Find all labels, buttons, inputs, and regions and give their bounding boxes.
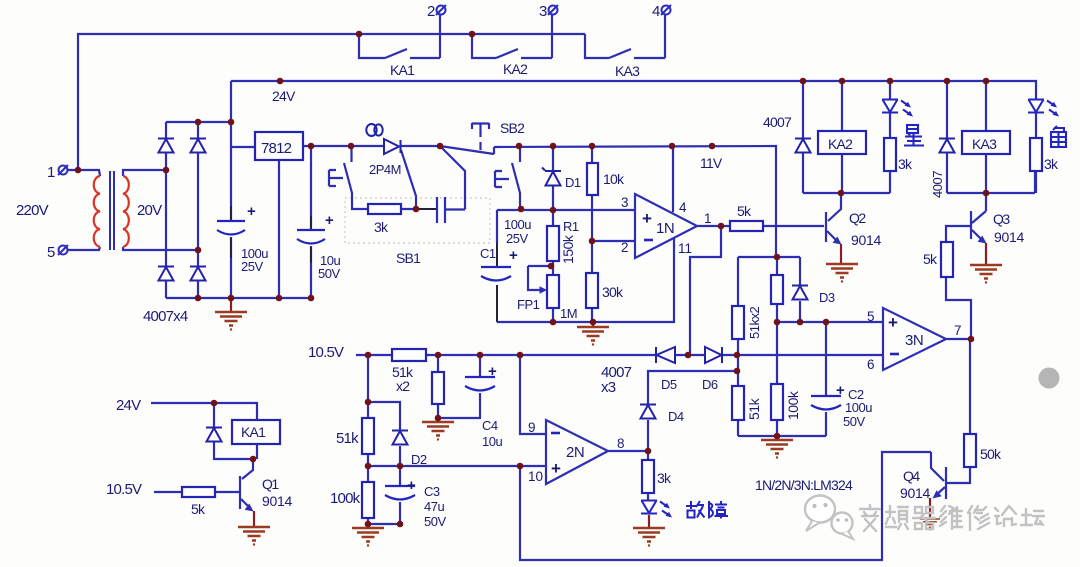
svg-text:3k: 3k: [374, 219, 389, 235]
svg-text:51k: 51k: [746, 397, 762, 420]
svg-text:+: +: [888, 313, 898, 332]
svg-text:3: 3: [621, 195, 629, 210]
svg-text:Q2: Q2: [849, 210, 866, 226]
svg-text:24V: 24V: [272, 88, 296, 104]
svg-text:4007x4: 4007x4: [143, 308, 188, 325]
svg-text:4007: 4007: [763, 114, 792, 130]
svg-text:1: 1: [704, 211, 712, 226]
svg-text:100k: 100k: [785, 390, 801, 420]
svg-text:9014: 9014: [900, 485, 930, 501]
svg-text:5k: 5k: [191, 501, 206, 517]
svg-text:24V: 24V: [116, 397, 141, 414]
svg-text:9: 9: [528, 420, 536, 435]
svg-text:C3: C3: [424, 484, 440, 499]
svg-text:5k: 5k: [923, 251, 938, 267]
svg-text:50k: 50k: [980, 446, 1002, 462]
svg-text:SB1: SB1: [396, 250, 421, 266]
svg-text:4: 4: [679, 200, 687, 215]
svg-text:3: 3: [539, 3, 547, 20]
svg-text:25V: 25V: [241, 259, 263, 274]
svg-text:50V: 50V: [424, 514, 446, 529]
svg-text:9014: 9014: [851, 232, 881, 248]
svg-text:9014: 9014: [262, 493, 292, 509]
svg-text:25V: 25V: [506, 231, 528, 246]
svg-text:10k: 10k: [603, 171, 625, 187]
svg-text:+: +: [509, 247, 518, 264]
svg-text:3N: 3N: [905, 332, 923, 349]
svg-text:220V: 220V: [16, 202, 49, 219]
svg-text:5k: 5k: [737, 203, 752, 219]
svg-text:4: 4: [652, 3, 660, 20]
svg-text:KA1: KA1: [390, 62, 415, 78]
svg-text:x2: x2: [396, 378, 410, 394]
svg-text:D4: D4: [668, 409, 684, 424]
svg-text:3k: 3k: [898, 156, 913, 172]
svg-text:KA1: KA1: [241, 424, 266, 440]
svg-text:+: +: [642, 209, 652, 228]
svg-text:D6: D6: [702, 377, 718, 392]
svg-text:3k: 3k: [1044, 156, 1059, 172]
svg-text:FP1: FP1: [517, 297, 540, 312]
svg-text:2N: 2N: [566, 444, 584, 461]
svg-text:50V: 50V: [843, 414, 865, 429]
svg-text:D1: D1: [565, 175, 581, 190]
svg-text:100u: 100u: [504, 217, 531, 232]
svg-text:Q3: Q3: [993, 211, 1010, 227]
svg-text:20V: 20V: [137, 202, 162, 219]
svg-text:R1: R1: [563, 219, 579, 234]
svg-text:+: +: [836, 382, 845, 399]
svg-text:Q4: Q4: [903, 468, 920, 484]
svg-text:5: 5: [867, 309, 875, 324]
svg-text:1N/2N/3N:LM324: 1N/2N/3N:LM324: [755, 477, 853, 493]
svg-text:51kx2: 51kx2: [747, 307, 762, 339]
svg-text:D3: D3: [819, 290, 835, 305]
svg-text:D5: D5: [661, 377, 677, 392]
svg-text:7: 7: [954, 323, 962, 338]
svg-text:2: 2: [427, 3, 435, 20]
svg-text:KA3: KA3: [972, 136, 997, 152]
svg-text:9014: 9014: [994, 229, 1024, 245]
svg-text:30k: 30k: [602, 284, 624, 300]
svg-text:1: 1: [47, 164, 55, 181]
svg-text:10u: 10u: [482, 434, 502, 449]
svg-text:C1: C1: [480, 246, 496, 261]
svg-text:5: 5: [47, 244, 55, 261]
svg-text:2: 2: [621, 240, 629, 255]
svg-text:SB2: SB2: [500, 120, 525, 136]
svg-text:3k: 3k: [657, 470, 672, 486]
svg-text:1N: 1N: [656, 220, 674, 237]
svg-text:+: +: [247, 203, 256, 220]
svg-text:150k: 150k: [560, 234, 576, 264]
svg-text:D2: D2: [411, 452, 427, 467]
svg-text:4007: 4007: [930, 171, 945, 198]
svg-text:7812: 7812: [261, 140, 292, 157]
svg-text:KA2: KA2: [828, 136, 853, 152]
svg-text:C4: C4: [482, 418, 498, 433]
svg-text:1M: 1M: [560, 306, 577, 321]
svg-text:KA2: KA2: [503, 61, 528, 77]
svg-text:47u: 47u: [424, 499, 444, 514]
svg-text:10.5V: 10.5V: [106, 481, 142, 498]
svg-text:6: 6: [867, 357, 875, 372]
svg-text:+: +: [551, 459, 561, 478]
svg-text:KA3: KA3: [615, 63, 640, 79]
svg-text:+: +: [488, 363, 497, 380]
svg-text:11: 11: [678, 241, 692, 256]
svg-text:8: 8: [617, 436, 625, 451]
svg-text:Q1: Q1: [262, 476, 279, 492]
svg-text:x3: x3: [601, 379, 616, 396]
svg-text:50V: 50V: [318, 266, 340, 281]
svg-text:+: +: [407, 477, 416, 494]
svg-text:51k: 51k: [336, 430, 359, 447]
svg-text:100k: 100k: [330, 490, 361, 507]
svg-text:100u: 100u: [845, 400, 872, 415]
svg-text:2P4M: 2P4M: [369, 162, 401, 177]
svg-text:10.5V: 10.5V: [308, 344, 344, 361]
svg-text:+: +: [325, 212, 334, 229]
svg-text:11V: 11V: [700, 155, 723, 171]
svg-text:10: 10: [528, 469, 543, 484]
